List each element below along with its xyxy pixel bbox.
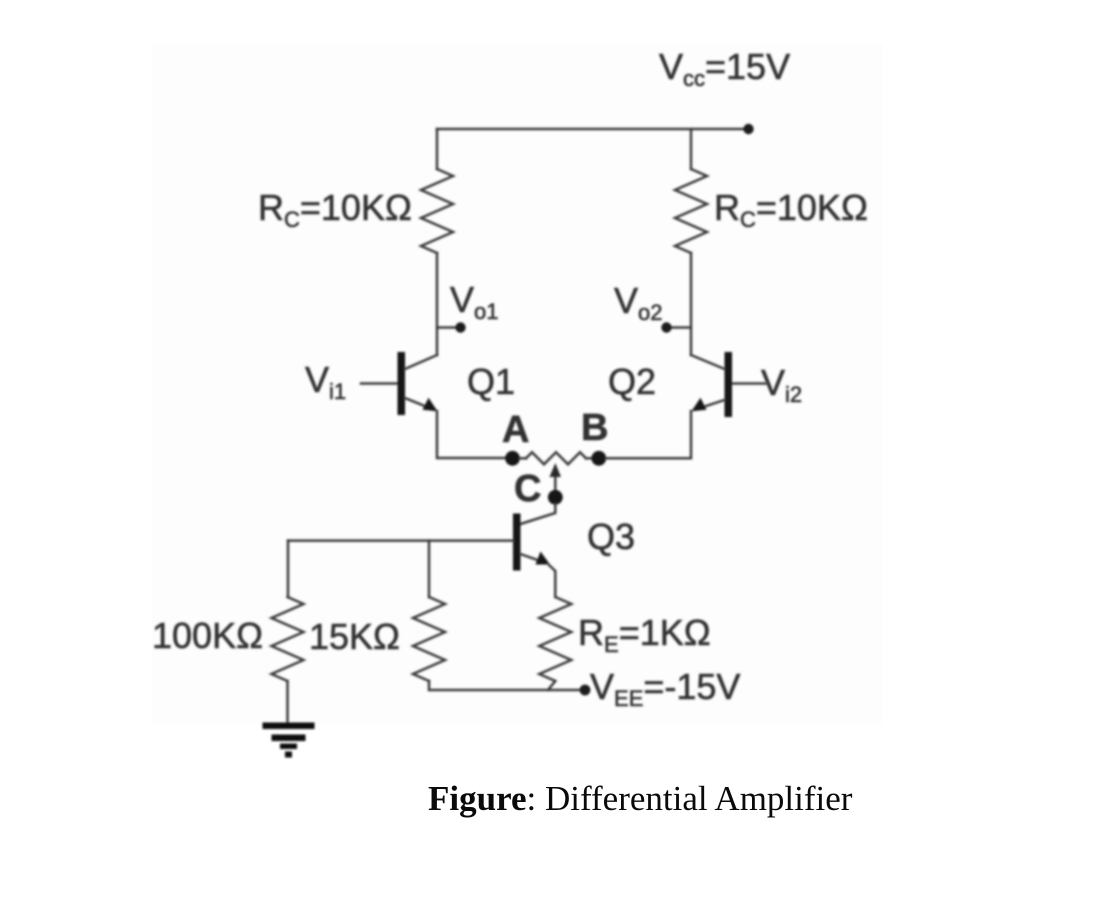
svg-text:15KΩ: 15KΩ [309,616,400,657]
node Vo1 dot [455,322,465,332]
wire RE bottom jog [548,681,555,690]
node VEE dot [580,685,591,696]
node C [548,490,563,505]
resistor RE [539,597,571,681]
node Vo2 dot [661,322,671,332]
svg-text:100KΩ: 100KΩ [152,615,263,656]
ground [263,723,315,758]
scan background [152,44,883,725]
svg-text:A: A [502,409,529,451]
wire bottom rail [429,681,585,690]
transistor Q3 [513,514,555,598]
node B [591,451,606,466]
svg-text:Vcc=15V: Vcc=15V [659,46,790,91]
wire right collector top [690,129,693,169]
wire Q1 emitter [437,411,512,458]
svg-text:Q2: Q2 [608,361,656,402]
arrow up into AB resistor [550,463,562,477]
node A [505,451,520,466]
svg-text:B: B [581,407,608,449]
wire right collector bottom [690,253,693,355]
wire Q3 base [288,539,513,542]
svg-text:RC=10KΩ: RC=10KΩ [258,187,412,232]
svg-text:VEE=-15V: VEE=-15V [590,666,740,711]
svg-text:RE=1KΩ: RE=1KΩ [578,612,711,657]
resistor between A and B [526,452,586,464]
wire Vo2 stub [672,326,691,329]
wire left collector bottom [436,253,439,355]
transistor Q1 [361,352,438,415]
resistor 15K [413,597,445,681]
wire current source pull [554,468,557,491]
wire C to Q3 collector [521,504,556,524]
transistor Q2 [691,352,766,417]
svg-text:C: C [514,468,541,510]
svg-text:Q1: Q1 [467,361,515,402]
wire B to Q2 emitter [606,411,691,458]
svg-text:RC=10KΩ: RC=10KΩ [714,187,868,232]
wire resistor to B [586,457,592,460]
wire 15K top [428,541,431,597]
node Vcc dot [743,124,753,134]
resistor RC right [675,169,707,253]
svg-text:Figure: Differential Amplifier: Figure: Differential Amplifier [428,779,853,818]
wire A to resistor [520,457,526,460]
wire Vo1 stub [437,326,456,329]
wire 100K to ground [286,681,289,723]
wire left collector top [436,129,439,169]
resistor RC left [421,169,453,253]
wire 100K top [287,541,290,597]
resistor 100K [272,597,304,681]
svg-text:Q3: Q3 [587,516,635,557]
wire Vcc top rail [437,128,749,131]
